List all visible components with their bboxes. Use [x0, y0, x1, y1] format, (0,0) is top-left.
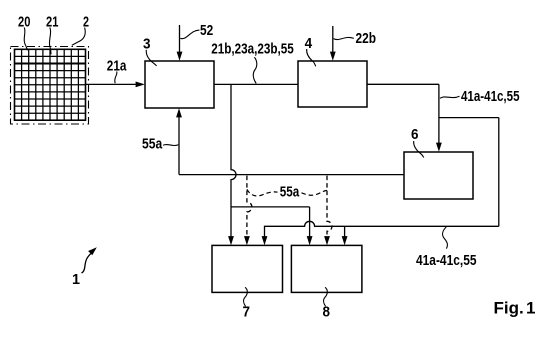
arrowhead dashed into block 8 top (middle) [324, 236, 330, 245]
leader 41a-41c,55 top [440, 96, 460, 98]
sensor grid 20/21 (pixel matrix) [15, 49, 86, 120]
arrowhead 55a into block 3 bottom [176, 108, 182, 117]
label 2 [83, 13, 89, 30]
wire 22b input [332, 26, 334, 53]
wire feedback right vertical [498, 118, 500, 227]
arrowhead 22b into block 4 top [330, 52, 336, 61]
arrowhead 52 into block 3 top [177, 52, 183, 61]
svg-text:1: 1 [526, 299, 535, 318]
label 20 [18, 13, 30, 30]
label 41a-41c,55 bottom [416, 252, 477, 269]
arrowhead dashed into block 7 top (middle) [244, 236, 250, 245]
label 55a middle [280, 184, 300, 201]
dashed link 55a between risers [247, 189, 278, 196]
wire feedback bottom (with hop over branch) [265, 221, 499, 237]
leader 20 [24, 28, 27, 51]
label 4 [305, 35, 313, 52]
wire branch to block 8 [231, 207, 310, 238]
label 55a left [142, 136, 163, 153]
arrowhead into block 6 top [436, 143, 442, 152]
block 6 [404, 152, 473, 199]
svg-text:1: 1 [72, 271, 80, 288]
label 21b,23a,23b,55 [211, 40, 293, 57]
leader 7 [244, 287, 248, 306]
wire feedback drop into block 8 (right) [344, 226, 346, 237]
dashed wire 55a to block 7 [247, 176, 252, 237]
label 52 [200, 22, 213, 39]
leader 22b [334, 37, 354, 39]
label 41a-41c,55 top [461, 88, 520, 105]
arrow 1 (curved pointer) [82, 253, 92, 273]
svg-text:52: 52 [200, 22, 213, 39]
leader 4 [307, 49, 316, 66]
arrowhead into block 8 top (left) [307, 236, 313, 245]
wire 55a feedback up into block 3 bottom [178, 116, 180, 174]
svg-text:55a: 55a [280, 184, 300, 201]
wire feedback right branch [439, 117, 499, 119]
label 21 [46, 13, 58, 30]
svg-text:21: 21 [46, 13, 58, 30]
label 21a [107, 57, 127, 74]
label 22b [356, 30, 377, 47]
svg-text:8: 8 [323, 303, 331, 320]
leader 2 [72, 28, 85, 46]
wire 55a riser corner [178, 174, 180, 176]
wire block 4 output to corner [367, 83, 439, 85]
label 6 [411, 126, 419, 143]
leader 21 [49, 28, 51, 55]
caption Fig. 1 [494, 299, 536, 318]
svg-text:41a-41c,55: 41a-41c,55 [416, 252, 477, 269]
svg-text:6: 6 [411, 126, 419, 143]
leader 6 [414, 141, 424, 158]
label 1 [72, 271, 80, 288]
leader 52 [180, 30, 199, 39]
wire 55a return: block 6 left to riser [179, 174, 404, 176]
leader 21b,23a,23b,55 [253, 57, 257, 83]
leader 21a [115, 72, 117, 84]
svg-text:22b: 22b [356, 30, 377, 47]
svg-text:7: 7 [243, 303, 251, 320]
label 8 [323, 303, 331, 320]
leader 55a left [163, 144, 178, 145]
svg-text:41a-41c,55: 41a-41c,55 [461, 88, 520, 105]
block 3 [145, 61, 214, 108]
arrowhead into block 7 top (right) [262, 236, 268, 245]
wire block 3 to block 4 [214, 83, 298, 85]
leader 41a-41c,55 bottom [443, 227, 448, 249]
arrowhead into block 3 left [136, 82, 145, 88]
svg-text:55a: 55a [142, 136, 163, 153]
label 7 [243, 303, 251, 320]
arrowhead into block 8 top (right) [342, 236, 348, 245]
wire branch from 3-4 line down to block 7 (with hop over 55a return) [231, 84, 236, 237]
svg-text:2: 2 [83, 13, 89, 30]
label 3 [143, 35, 151, 52]
leader 8 [324, 287, 328, 306]
arrowhead into block 7 top (left) [228, 236, 234, 245]
wire down into block 6 [438, 84, 440, 143]
block 4 [298, 61, 367, 107]
wire 52 input [179, 25, 181, 53]
svg-text:21b,23a,23b,55: 21b,23a,23b,55 [211, 40, 293, 57]
leader 3 [146, 50, 156, 66]
block 7 [212, 245, 283, 292]
wire 21a: grid to block 3 [86, 83, 136, 85]
svg-text:Fig.: Fig. [494, 299, 524, 318]
sensor array border 2 (dash-dot frame) [11, 47, 89, 125]
block 8 [291, 245, 362, 292]
svg-text:4: 4 [305, 35, 313, 52]
dashed wire 55a to block 8 [327, 176, 332, 237]
